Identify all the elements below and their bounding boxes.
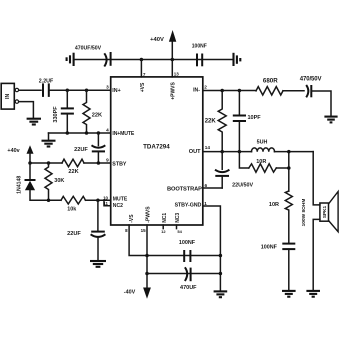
capacitor C 2.2UF (input coupling) xyxy=(43,83,49,97)
pin: IN hot terminal circle xyxy=(15,88,18,91)
wire: 22K stby to pin 9 xyxy=(84,162,111,164)
svg-text:30K: 30K xyxy=(54,178,64,184)
svg-text:BOOTSTRAP: BOOTSTRAP xyxy=(167,187,202,193)
wire: 680R to cap xyxy=(283,90,304,92)
capacitor C 470/50V (feedback) xyxy=(306,85,311,97)
svg-text:22UF: 22UF xyxy=(67,231,81,237)
node: OUT/22K-22UF junction xyxy=(220,150,224,154)
svg-text:330PF: 330PF xyxy=(53,106,59,123)
capacitor C 470UF (-VS electrolytic) xyxy=(185,267,191,281)
svg-text:100NF: 100NF xyxy=(261,244,278,250)
power +40V arrow (top) xyxy=(169,30,176,60)
ground (pin 4 / input filter) xyxy=(42,141,56,147)
connector J IN (input jack) xyxy=(1,83,14,109)
svg-text:4: 4 xyxy=(106,127,109,132)
svg-text:54: 54 xyxy=(177,229,182,234)
node: 30K top on stby line xyxy=(47,161,51,165)
svg-text:OUT: OUT xyxy=(189,149,201,155)
resistor R 22K (stby, horizontal) xyxy=(62,159,84,167)
node: input/330PF junction xyxy=(66,88,70,92)
wire: C2.2UF to pin 3 xyxy=(49,89,111,91)
svg-text:NC3: NC3 xyxy=(175,213,181,223)
node: rail to pin7 junction xyxy=(140,58,144,62)
svg-text:2: 2 xyxy=(204,85,207,90)
svg-text:680R: 680R xyxy=(263,77,278,84)
IC U1 TDA7294 body xyxy=(111,77,203,225)
ground (22UF mute) xyxy=(90,261,106,267)
svg-text:100NF: 100NF xyxy=(179,240,196,246)
wire: coil to speaker feed xyxy=(275,151,314,153)
svg-text:12: 12 xyxy=(161,229,166,234)
capacitor C 10PF xyxy=(233,91,246,152)
capacitor C 22UF (mute) xyxy=(91,200,106,260)
capacitor C 100NF (-VS decoupling) xyxy=(184,250,190,262)
capacitor C 22U/50V (bootstrap) xyxy=(215,152,229,188)
node: mute/22UF junction xyxy=(96,198,100,202)
ground (input jack) xyxy=(27,119,41,125)
svg-text:470UF/50V: 470UF/50V xyxy=(75,46,102,52)
wire: speaker feed down xyxy=(313,152,320,205)
ground (rotated right, top rail right end) xyxy=(234,53,241,66)
wire: pin 2 (IN-) line xyxy=(203,90,256,92)
svg-text:22K: 22K xyxy=(92,112,103,118)
svg-text:22K: 22K xyxy=(205,118,217,124)
node: 470UF wire / stby-gnd vertical xyxy=(219,272,223,276)
wire: pin 15 (-PWVS) down to -40V xyxy=(146,225,148,287)
svg-text:10: 10 xyxy=(103,195,108,200)
wire: 330PF branch lower xyxy=(66,114,68,133)
svg-text:MUTE: MUTE xyxy=(113,197,128,203)
svg-text:-VS: -VS xyxy=(129,214,135,223)
node: 330PF bottom on pin4 line xyxy=(66,131,70,135)
node: pin15 / 470UF wire junction xyxy=(145,272,149,276)
node: left vertical / stby line xyxy=(28,161,32,165)
wire: pin4 line down to ground xyxy=(48,133,50,140)
node: speaker feed / zobel top xyxy=(287,150,291,154)
svg-text:IN: IN xyxy=(5,94,11,99)
wire: cap to ground corner xyxy=(311,91,331,116)
svg-text:22K: 22K xyxy=(68,169,78,175)
svg-text:+40v: +40v xyxy=(7,148,19,154)
node: 22K bottom on pin4 line xyxy=(85,131,89,135)
pin number 54 (NC3 stub) xyxy=(177,225,183,234)
svg-text:-40V: -40V xyxy=(124,290,136,296)
svg-text:3: 3 xyxy=(106,84,109,89)
svg-text:13: 13 xyxy=(174,72,180,77)
svg-text:15: 15 xyxy=(141,228,147,233)
capacitor C 100NF (zobel) xyxy=(282,244,295,290)
svg-text:STBY-GND: STBY-GND xyxy=(175,203,202,209)
svg-text:TDA7294: TDA7294 xyxy=(143,144,170,151)
svg-text:470/50V: 470/50V xyxy=(300,76,322,82)
pin number 12 (NC1 stub) xyxy=(161,225,166,234)
svg-text:5UH: 5UH xyxy=(257,140,268,146)
svg-text:100W 8OHM: 100W 8OHM xyxy=(301,199,307,227)
svg-text:SPK1: SPK1 xyxy=(322,205,327,218)
svg-text:-PWVS: -PWVS xyxy=(146,206,152,223)
svg-text:+40V: +40V xyxy=(150,37,164,43)
wire: STBY-GND pin 1 to bottom ground xyxy=(203,206,221,291)
svg-text:+PWVS: +PWVS xyxy=(170,81,176,99)
resistor R 30K (vertical) xyxy=(45,163,52,200)
speaker SPK1 xyxy=(320,192,338,232)
wire: 10R parallel right leg xyxy=(276,152,289,191)
node: 10R right end xyxy=(287,166,291,170)
wire: speaker return to ground xyxy=(313,219,320,290)
svg-text:470UF: 470UF xyxy=(180,285,197,291)
svg-text:100NF: 100NF xyxy=(192,44,207,50)
resistor R 10R (zobel, vertical) xyxy=(285,191,292,243)
inductor L 5UH xyxy=(251,148,274,152)
node: OUT/10PF-10R junction xyxy=(238,150,242,154)
pin: IN gnd terminal circle xyxy=(15,100,18,103)
svg-text:NC2: NC2 xyxy=(113,203,123,209)
wire: pin 4 line xyxy=(49,132,111,134)
diode D 1N4148 xyxy=(25,180,36,190)
wire: OUT (pin 14) line xyxy=(203,151,252,153)
wire: rail down to pin 13 xyxy=(171,60,173,77)
wire: 10R parallel left leg xyxy=(239,152,248,168)
svg-text:1N4148: 1N4148 xyxy=(16,176,22,194)
svg-text:2.2UF: 2.2UF xyxy=(39,79,54,85)
svg-text:9: 9 xyxy=(106,157,109,162)
svg-text:22UF: 22UF xyxy=(74,147,88,153)
capacitor C 330PF xyxy=(61,108,74,113)
node: 30K bottom on mute line xyxy=(47,198,51,202)
node: rail to pin13 / +40V arrow junction xyxy=(171,58,175,62)
svg-text:10R: 10R xyxy=(256,159,266,165)
node: pin15 / -VS wire junction xyxy=(145,254,149,258)
capacitor C 470UF/50V (top rail electrolytic) xyxy=(104,52,110,67)
wire: pin 8 (-VS) down and right xyxy=(129,225,220,256)
wire: IN gnd lead xyxy=(19,102,34,118)
node: -VS wire / stby-gnd vertical xyxy=(219,254,223,258)
ground (feedback cap) xyxy=(324,117,337,123)
resistor R 22K (feedback, vertical) xyxy=(218,91,226,152)
svg-text:14: 14 xyxy=(205,145,211,150)
capacitor C 100NF (top rail) xyxy=(197,54,202,67)
svg-text:IN+MUTE: IN+MUTE xyxy=(112,131,135,137)
svg-text:8: 8 xyxy=(125,228,128,233)
ground (zobel) xyxy=(282,291,296,297)
svg-text:10PF: 10PF xyxy=(248,115,262,121)
wire: stby line (pin 9) xyxy=(30,162,62,164)
node: 22UF top on pin4 line xyxy=(97,131,101,135)
node: input/22K junction xyxy=(85,88,89,92)
svg-text:10R: 10R xyxy=(269,202,279,208)
svg-text:IN+: IN+ xyxy=(112,88,120,94)
ground (rotated left, top rail left end) xyxy=(67,53,74,66)
wire: pin 11 stub xyxy=(104,200,111,206)
power +40v arrow (left) xyxy=(27,145,34,163)
wire: 470UF row xyxy=(147,273,220,275)
svg-text:NC1: NC1 xyxy=(162,213,168,223)
ground (speaker) xyxy=(306,291,320,297)
node: 10PF top xyxy=(238,89,242,93)
wire: IN hot to C 2.2UF xyxy=(19,89,41,91)
capacitor C 22UF (stby, pin4 to pin9) xyxy=(92,133,106,163)
wire: bootstrap pin 6 xyxy=(203,187,222,189)
wire: rail down to pin 7 xyxy=(140,60,142,77)
svg-text:11: 11 xyxy=(103,201,108,206)
wire: diode to mute line corner xyxy=(30,190,61,200)
resistor R 10R (parallel with coil) xyxy=(249,164,276,172)
resistor R 22K (input bias, vertical) xyxy=(83,90,90,133)
ground (bottom center) xyxy=(214,291,228,297)
node: 22UF bottom on stby line xyxy=(97,161,101,165)
svg-text:10k: 10k xyxy=(67,207,76,213)
wire: left vertical +40v to diode xyxy=(29,163,31,179)
wire: 330PF branch upper xyxy=(66,90,68,108)
wire: 10k to pins 10/11 xyxy=(86,199,111,201)
svg-text:22U/50V: 22U/50V xyxy=(232,182,253,188)
resistor R 10k (mute, horizontal) xyxy=(61,196,86,204)
wire: top +40V rail xyxy=(74,59,234,61)
power -40V arrow xyxy=(143,288,151,299)
resistor R 680R xyxy=(256,87,283,95)
svg-text:STBY: STBY xyxy=(112,162,127,168)
svg-text:+VS: +VS xyxy=(140,82,146,92)
svg-text:IN-: IN- xyxy=(193,88,200,94)
node: 22K fb top xyxy=(220,89,224,93)
